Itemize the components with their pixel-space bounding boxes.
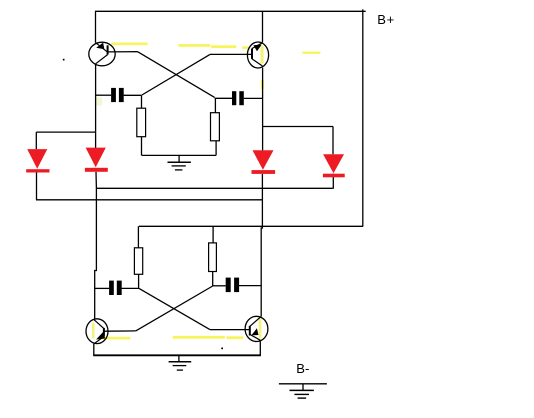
LED D2 [85, 148, 108, 172]
wire Q3 base lead [104, 330, 136, 332]
capacitor C4 [226, 278, 239, 293]
node dot near Q4 [221, 348, 223, 350]
wire C1 left [96, 94, 112, 96]
wire R2 bottom lead [215, 141, 217, 156]
wire Q2 collector down to D3 [262, 68, 264, 151]
wire R3 bottom lead [138, 274, 140, 288]
LED D3 [252, 150, 276, 174]
wire right feed horizontal [263, 126, 333, 128]
node dot left of Q1 [63, 59, 65, 61]
faint yellow patch near C1 [96, 98, 103, 106]
wire R4 bottom lead [212, 271, 214, 286]
svg-text:B+: B+ [377, 12, 394, 27]
wire D4 top stub [332, 127, 334, 155]
wire node line B [36, 199, 262, 201]
yellow dash right of Q2 [302, 52, 320, 54]
wire B- ground stub [302, 384, 304, 391]
wire lower ground stub [178, 355, 180, 361]
ground upper [168, 162, 191, 170]
wire Q4 bottom [259, 341, 261, 355]
wire upper cross diagonal left-to-right [138, 52, 215, 98]
wire C1 right [124, 94, 142, 96]
yellow highlight band upper segment 4 [242, 46, 249, 49]
wire lower cross diagonal left-to-right [139, 288, 210, 329]
capacitor C2 [232, 91, 244, 105]
wire left vertical D2 to Q3 [95, 172, 97, 319]
wire Q2 base lead [210, 53, 252, 55]
yellow highlight band upper segment 1 [111, 43, 148, 46]
wire Q4 base lead [210, 329, 250, 331]
ground lower [169, 362, 192, 370]
resistor R4 [209, 243, 217, 272]
yellow highlight band lower segment 3 [227, 336, 244, 339]
yellow highlight band lower segment 2 [173, 336, 225, 339]
wire C3 left [95, 287, 110, 289]
transistor Q1 [89, 42, 115, 66]
wire D4 bottom stub [332, 174, 334, 189]
wire Q1 emitter to rail [95, 11, 97, 43]
wire Q2 emitter to rail [262, 11, 264, 42]
wire D1 top stub [35, 132, 37, 149]
wire D1 bottom stub [36, 173, 38, 200]
yellow highlight band upper segment 2 [178, 44, 210, 47]
wire Q1 collector down to D2 [95, 64, 97, 148]
transistor Q2 [247, 42, 268, 68]
wire C2 left [215, 97, 233, 99]
yellow highlight band lower segment 1 [102, 337, 131, 340]
wire right vertical D3 to Q4 [261, 174, 262, 317]
svg-text:B-: B- [296, 361, 309, 376]
transistor Q4 [245, 316, 268, 341]
ground B- [290, 390, 314, 398]
wire node line C [139, 225, 363, 227]
LED D4 [323, 154, 345, 177]
yellow vertical strip inside Q3 [92, 323, 95, 339]
wire Q3 bottom [93, 344, 95, 356]
resistor R2 [211, 113, 220, 141]
wire left box horizontal [36, 131, 95, 133]
wire R3 top lead [137, 226, 139, 248]
wire upper cross diagonal right-to-left [142, 54, 210, 95]
wire node line A [96, 187, 332, 189]
wire R1 bottom lead [141, 137, 143, 156]
wire B+ top rail [95, 10, 366, 12]
yellow vertical strip below Q2 [261, 80, 264, 89]
wire Q1 base lead [108, 51, 138, 53]
LED D1 [26, 149, 49, 172]
wire lower bottom line [93, 354, 261, 356]
yellow vertical strip inside Q2 [261, 46, 264, 64]
transistor Q3 [86, 319, 108, 344]
wire upper ground line [142, 154, 217, 156]
capacitor C1 [111, 88, 124, 102]
wire R4 top lead [212, 226, 214, 243]
capacitor C3 [109, 281, 122, 295]
resistor R1 [137, 108, 146, 137]
wire C2 right [244, 97, 263, 99]
wire B- ground top line [279, 383, 327, 385]
resistor R3 [134, 248, 142, 274]
wire R2 top lead [214, 98, 216, 113]
wire R1 top lead [141, 95, 143, 108]
yellow highlight band upper segment 3 [211, 45, 236, 48]
wire C4 left [213, 285, 226, 287]
wire right rail [362, 9, 364, 226]
wire C4 right [239, 285, 261, 287]
wire lower cross diagonal right-to-left [136, 286, 213, 331]
wire upper ground stub [178, 155, 180, 162]
wire C3 right [122, 287, 139, 289]
yellow vertical strip inside Q4 [259, 317, 262, 339]
